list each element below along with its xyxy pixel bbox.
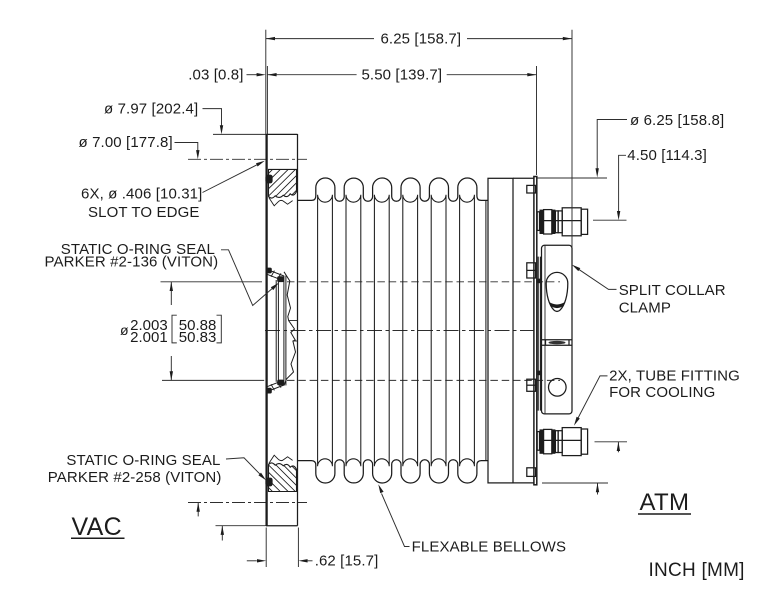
center boss vertical 3 bbox=[283, 276, 285, 386]
leader o-ring 2-136 bbox=[221, 250, 274, 306]
clamp screw mark upper bbox=[538, 279, 541, 284]
dim 7.97 bottom arrow bbox=[221, 526, 223, 541]
split collar clamp body bbox=[542, 245, 573, 414]
svg-text:FOR COOLING: FOR COOLING bbox=[609, 384, 715, 401]
bellows inner wall pairs with crown arcs bbox=[318, 195, 486, 466]
top seal chamfer bbox=[267, 270, 284, 280]
center boss vertical 4 bbox=[285, 276, 287, 386]
bolt circle line top bbox=[188, 158, 307, 160]
o-ring 2-136 dot bore top bbox=[277, 276, 284, 282]
svg-text:5.50 [139.7]: 5.50 [139.7] bbox=[361, 66, 442, 83]
dim 7.97 leader bbox=[203, 109, 222, 126]
leader 6X slot bbox=[203, 164, 259, 193]
leader tube fitting bbox=[578, 376, 608, 419]
bolt circle line bottom bbox=[188, 502, 307, 504]
leader o-ring 2-258 bbox=[226, 458, 262, 476]
extension 6.25 right bottom bbox=[542, 482, 608, 484]
extension 4.50 top bbox=[593, 219, 627, 221]
flange OD bottom extension line bbox=[216, 525, 266, 527]
clamp split gap lens bbox=[549, 341, 566, 344]
tube fitting bottom bbox=[537, 428, 587, 456]
.03 lip extension line bbox=[266, 66, 268, 134]
svg-text:ø 7.97 [202.4]: ø 7.97 [202.4] bbox=[104, 100, 198, 117]
left flange face thick line bbox=[265, 134, 267, 526]
dim 6.25 line bbox=[266, 38, 374, 40]
plate tab 1 bbox=[527, 185, 536, 193]
centerline bbox=[265, 330, 539, 332]
bottom hatch section block bbox=[269, 463, 297, 492]
svg-text:2X, TUBE FITTING: 2X, TUBE FITTING bbox=[609, 368, 740, 385]
clamp split notch right bbox=[568, 340, 570, 346]
clamp split upper line bbox=[542, 339, 573, 341]
teardrop dark band bbox=[549, 302, 565, 308]
dim 2.003 extension top bbox=[161, 281, 263, 283]
flange OD top extension line bbox=[213, 133, 266, 135]
right flange disc bbox=[488, 178, 513, 483]
bellows top profile bbox=[298, 178, 489, 201]
svg-text:VAC: VAC bbox=[72, 513, 122, 541]
center boss vertical 1 bbox=[275, 280, 277, 382]
leader flexable bellows bbox=[382, 494, 410, 547]
clamp screw mark lower bbox=[538, 371, 541, 376]
svg-text:4.50 [114.3]: 4.50 [114.3] bbox=[627, 147, 707, 164]
svg-text:6X, ø .406 [10.31]: 6X, ø .406 [10.31] bbox=[81, 185, 202, 202]
plate tab 3 bbox=[527, 379, 536, 391]
dim 7.00 bottom arrow bbox=[197, 503, 199, 517]
svg-text:.03 [0.8]: .03 [0.8] bbox=[188, 66, 243, 83]
clamp split lower line bbox=[542, 344, 573, 346]
left flange face extension upper bbox=[265, 30, 267, 134]
svg-text:ø 6.25 [158.8]: ø 6.25 [158.8] bbox=[630, 112, 724, 129]
o-ring 2-136 dot bore bottom bbox=[277, 380, 284, 386]
clamp teardrop hole bbox=[546, 272, 568, 311]
dim 2.003 extension bottom bbox=[162, 379, 264, 381]
leader split collar clamp bbox=[579, 269, 617, 289]
svg-text:ø: ø bbox=[120, 322, 129, 338]
extension 4.50 bottom bbox=[595, 441, 628, 443]
dim 5.50 extension right bbox=[536, 66, 538, 175]
tube fitting top bbox=[537, 208, 587, 236]
dim .62 extension left bbox=[265, 528, 267, 568]
o-ring 2-258 dot bottom bbox=[265, 478, 272, 487]
clamp split notch left bbox=[545, 340, 547, 346]
dim .03 arrow bbox=[247, 74, 258, 76]
boss ledge upper bbox=[289, 320, 298, 322]
leader 4.50 bbox=[619, 155, 626, 211]
svg-text:6.25 [158.7]: 6.25 [158.7] bbox=[380, 30, 461, 47]
right backing plate bbox=[513, 177, 534, 179]
top hatch section block bbox=[269, 169, 297, 198]
dim 2.003 vertical line bbox=[170, 282, 172, 305]
bore hidden line lower bbox=[287, 379, 560, 381]
svg-text:PARKER #2-258 (VITON): PARKER #2-258 (VITON) bbox=[48, 469, 222, 486]
svg-text:.62 [15.7]: .62 [15.7] bbox=[315, 553, 379, 570]
leader 6.25 right bbox=[597, 120, 627, 169]
bellows bottom profile bbox=[298, 460, 489, 483]
clamp bottom hole bbox=[549, 379, 567, 397]
bottom hatch break scribble bbox=[269, 455, 293, 463]
svg-text:SPLIT COLLAR: SPLIT COLLAR bbox=[619, 282, 726, 299]
boss break line bbox=[284, 272, 296, 386]
backing plate right face bbox=[534, 177, 537, 485]
svg-text:PARKER #2-136 (VITON): PARKER #2-136 (VITON) bbox=[45, 254, 219, 271]
clamp inner collar strip bbox=[537, 257, 539, 411]
plate tab 2 bbox=[527, 263, 536, 278]
svg-text:SLOT TO EDGE: SLOT TO EDGE bbox=[88, 204, 199, 221]
bottom seal chamfer bbox=[267, 381, 284, 391]
svg-text:CLAMP: CLAMP bbox=[619, 300, 671, 317]
svg-text:INCH [MM]: INCH [MM] bbox=[649, 560, 745, 581]
svg-text:FLEXABLE BELLOWS: FLEXABLE BELLOWS bbox=[412, 539, 566, 556]
o-ring 2-136 dot face bottom bbox=[266, 388, 272, 394]
extension 6.25 right top bbox=[538, 177, 608, 179]
plate tab 4 bbox=[527, 468, 536, 477]
dim .62 extension right bbox=[297, 528, 299, 568]
boss ledge lower bbox=[293, 340, 297, 342]
left flange bottom edge bbox=[266, 525, 298, 527]
left flange right edge bbox=[297, 134, 299, 526]
dim 5.50 line bbox=[267, 74, 356, 76]
dim .62 arrows bbox=[247, 560, 257, 562]
svg-text:50.83: 50.83 bbox=[179, 329, 217, 346]
dim 7.00 leader bbox=[175, 143, 198, 151]
o-ring 2-258 dot top bbox=[265, 175, 272, 184]
svg-text:STATIC O-RING SEAL: STATIC O-RING SEAL bbox=[66, 452, 220, 469]
o-ring 2-136 dot face top bbox=[266, 268, 272, 274]
svg-text:ATM: ATM bbox=[640, 489, 690, 516]
svg-text:ø 7.00 [177.8]: ø 7.00 [177.8] bbox=[79, 134, 173, 151]
center boss vertical 2 bbox=[277, 282, 279, 381]
left flange top edge bbox=[266, 133, 298, 135]
bore hidden line upper bbox=[287, 281, 560, 283]
top hatch break scribble bbox=[269, 198, 293, 206]
svg-text:2.001: 2.001 bbox=[130, 329, 168, 346]
dim 6.25 extension right bbox=[571, 30, 573, 247]
